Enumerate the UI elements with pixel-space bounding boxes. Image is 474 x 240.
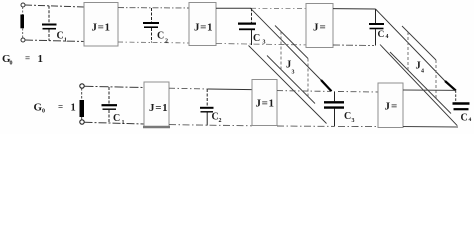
wire: diagonal rail R2 (C3-A bottom node down to bottom rail B) <box>249 46 327 124</box>
node: input terminal top (circuit A) <box>21 3 25 7</box>
svg-text:C: C <box>461 113 468 124</box>
node: input terminal bottom (circuit A) <box>21 38 25 42</box>
wire: top rail A segment 3 (solid) <box>216 7 251 9</box>
svg-text:C: C <box>253 33 260 44</box>
svg-text:J=1: J=1 <box>194 22 213 34</box>
wire: bottom rail B segment 5 <box>403 126 458 129</box>
inverter box J= (U3, circuit A) <box>306 4 333 48</box>
svg-text:J=: J= <box>313 22 327 34</box>
svg-text:1: 1 <box>71 103 76 114</box>
svg-text:J=1: J=1 <box>92 22 111 34</box>
inverter box J= (U3, circuit B) <box>378 83 403 128</box>
svg-text:J: J <box>286 60 291 71</box>
wire: bottom rail B segment 2 <box>169 125 252 126</box>
svg-text:1: 1 <box>38 53 44 65</box>
inverter parallelogram J4 (sheared box between rows) <box>390 26 451 114</box>
capacitor C1 (circuit B) <box>102 87 118 124</box>
svg-text:C: C <box>344 111 351 122</box>
node: input terminal top (circuit B) <box>80 84 84 88</box>
inverter box J=1 (U1, circuit B) <box>143 82 170 127</box>
wire: diagonal rail R3 (C4-A node down to C4-B node) <box>376 9 456 91</box>
label J4 <box>416 61 425 75</box>
svg-text:3: 3 <box>292 70 295 76</box>
svg-text:C: C <box>57 31 64 42</box>
wire: bottom rail A segment 4 <box>333 44 374 47</box>
capacitor C4 (circuit A) <box>369 9 384 46</box>
wire: top rail B segment 4 <box>338 91 378 94</box>
label C2 (circuit A) <box>157 31 168 45</box>
inverter box J=1 (U2, circuit A) <box>189 3 216 46</box>
label C2 (circuit B) <box>212 112 222 125</box>
wire: terminal vertical link (circuit A) <box>22 7 24 38</box>
label J3 <box>286 60 295 76</box>
label G0 = 1 (circuit A) <box>2 53 43 67</box>
wire: top rail B segment 5 (to C5) <box>403 89 456 91</box>
wire: top rail B segment 2 <box>169 88 252 89</box>
wire: top rail A segment 5 (solid) <box>333 8 376 10</box>
wire: top rail A segment 4 (faint, under C3 to box3) <box>251 7 306 9</box>
capacitor C2 (circuit A) <box>143 8 159 43</box>
label C4 (circuit A) <box>378 30 389 40</box>
capacitor C3 (circuit B) <box>324 91 344 126</box>
svg-text:1: 1 <box>64 38 67 44</box>
label C5 (circuit B, rightmost) <box>461 113 472 124</box>
svg-text:C: C <box>378 30 385 40</box>
inverter parallelogram J3 (sheared box between rows) <box>267 26 315 104</box>
op-amp-style inverter box J=1 (U1, circuit A) <box>84 3 118 47</box>
svg-text:2: 2 <box>165 39 168 45</box>
wire: bottom rail A segment 1 <box>25 40 84 42</box>
svg-text:C: C <box>157 31 164 42</box>
resistor G0 (circuit B source conductance bar) <box>80 100 85 117</box>
wire: bottom rail A segment 2 <box>118 42 189 43</box>
svg-text:C: C <box>113 113 120 124</box>
svg-text:=: = <box>25 53 30 63</box>
svg-text:J=: J= <box>385 101 399 113</box>
wire: top rail A segment 1 <box>25 5 84 7</box>
capacitor C1 (circuit A) <box>42 6 57 41</box>
wire: top rail A segment 2 <box>118 7 189 9</box>
wire: top rail B segment 1 <box>85 86 145 87</box>
capacitor C3 (circuit A) <box>238 8 256 45</box>
svg-text:3: 3 <box>263 40 266 46</box>
inverter box J=1 (U2, circuit B) <box>252 80 277 126</box>
svg-text:=: = <box>58 102 63 112</box>
svg-text:4: 4 <box>421 69 424 75</box>
wire: top rail B segment 3 <box>277 90 331 93</box>
wire: diagonal rail R1 (C3-A node down to C3-B node) <box>251 8 332 91</box>
wire: terminal vertical link (circuit B) <box>81 88 83 120</box>
wire: bottom rail B segment 4 <box>338 125 378 127</box>
svg-text:J=1: J=1 <box>256 98 275 110</box>
capacitor C5 (circuit B, rightmost) <box>453 90 470 109</box>
label C3 (circuit A) <box>253 33 266 46</box>
svg-text:3: 3 <box>352 118 355 124</box>
svg-text:J: J <box>416 61 421 72</box>
svg-text:0: 0 <box>42 109 45 115</box>
label G0 = 1 (circuit B) <box>34 102 76 115</box>
label C1 (circuit B) <box>113 113 125 126</box>
capacitor C2 (circuit B) <box>200 89 214 126</box>
svg-text:2: 2 <box>219 118 222 124</box>
svg-text:0: 0 <box>10 61 13 67</box>
wire: bottom rail A segment 3 <box>216 44 306 45</box>
svg-text:4: 4 <box>469 117 472 123</box>
svg-text:J=1: J=1 <box>149 102 168 114</box>
resistor G0 (circuit A source conductance bar) <box>20 15 24 29</box>
label C3 (circuit B) <box>344 111 355 124</box>
label C1 (circuit A) <box>57 31 68 44</box>
node: input terminal bottom (circuit B) <box>80 120 84 124</box>
svg-text:4: 4 <box>386 34 389 40</box>
wire: diagonal rail R4 (C4-A bottom node down to bottom rail B end) <box>380 45 457 126</box>
wire: bottom rail B segment 3 <box>277 125 335 127</box>
wire: bottom rail B segment 1 <box>85 122 145 124</box>
svg-text:1: 1 <box>122 120 125 126</box>
